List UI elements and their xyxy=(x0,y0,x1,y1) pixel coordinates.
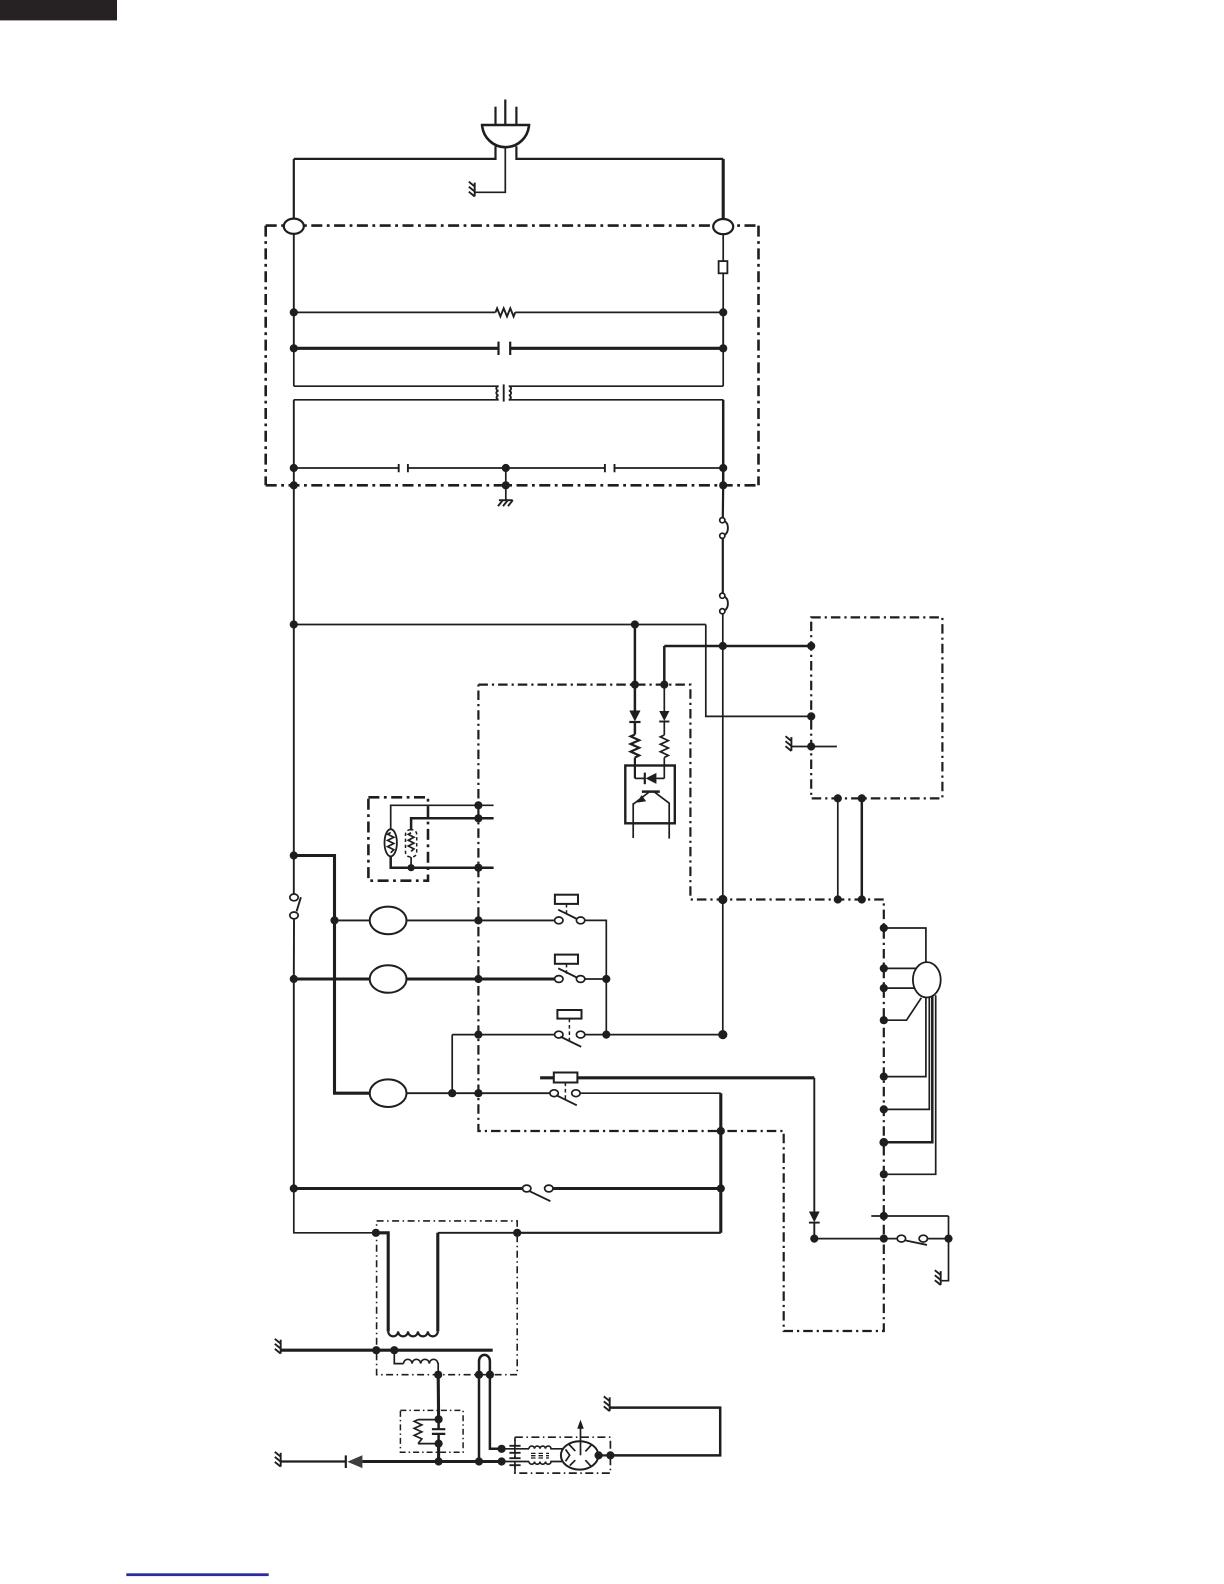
wire monitor switch out xyxy=(928,1238,949,1240)
node lower bus 1131 xyxy=(717,1127,725,1135)
node power unit out1 xyxy=(834,794,842,802)
monitor switch xyxy=(897,1235,927,1245)
wire left choke down xyxy=(293,400,295,468)
node R1 right xyxy=(719,308,727,316)
node control edge out2 xyxy=(858,895,866,903)
HV capacitor C4 xyxy=(432,1419,445,1443)
power unit box xyxy=(811,617,942,798)
node relay bus 979 xyxy=(602,975,610,983)
wire RY1 contact out xyxy=(585,920,607,979)
node anode box edge xyxy=(606,1451,614,1459)
node live rail left xyxy=(290,620,298,628)
fan motor FM xyxy=(370,907,407,935)
wire relay coil bus thick xyxy=(540,1076,814,1079)
node main left 1188 xyxy=(290,1184,298,1192)
relay RY2 link xyxy=(566,964,568,976)
HV secondary hairpin xyxy=(479,1355,502,1461)
relay RY1 coil xyxy=(555,895,578,904)
wire CN1 pin8 xyxy=(884,995,936,1174)
wire relay line to switch xyxy=(814,1238,897,1240)
wire heater line drop xyxy=(451,1035,453,1094)
relay RY1 contact xyxy=(555,910,585,924)
relay RY1 link xyxy=(566,904,568,917)
wire filament1 xyxy=(502,1448,529,1450)
node CN wire7 xyxy=(879,1138,888,1147)
wire lamp bottom lead xyxy=(391,856,494,867)
wire branch down to diode D2 xyxy=(663,685,665,711)
node CN wire4 xyxy=(880,1016,888,1024)
wire D2 to R3 xyxy=(663,722,665,736)
choke L1 rail top xyxy=(294,385,723,387)
node CN wire8 xyxy=(880,1170,888,1178)
node box edge right xyxy=(719,481,727,489)
node power unit in2 xyxy=(807,712,815,720)
wire D3 to node xyxy=(813,1223,815,1239)
wire HV primary bus xyxy=(517,1232,721,1234)
magnetron filter box xyxy=(515,1437,611,1473)
node PCB in 2 xyxy=(660,681,668,689)
node live rail branch xyxy=(631,620,639,628)
node lamp line 1 xyxy=(474,801,482,809)
wire motor rail to fan motor xyxy=(335,919,370,921)
capacitor C1 xyxy=(499,342,511,355)
wire CN1 pin7 xyxy=(884,997,933,1143)
node CN wire2 xyxy=(880,964,888,972)
relay RY2 coil xyxy=(555,955,578,964)
node power unit gnd xyxy=(807,742,815,750)
node PCB in 1 xyxy=(631,681,639,689)
wire door switch down xyxy=(293,919,295,979)
wire left rail 485 to 855 xyxy=(293,485,295,855)
terminal L xyxy=(284,219,304,234)
wire power unit to ground xyxy=(791,746,811,748)
HV transformer filament winding xyxy=(394,1350,438,1375)
wire left terminal down xyxy=(293,234,295,313)
node secondary box edge xyxy=(372,1346,380,1354)
wire branch down to diode D1 xyxy=(634,625,637,711)
ground monitor xyxy=(935,1270,941,1285)
node thermistor bottom xyxy=(408,864,415,871)
wire right choke down xyxy=(722,400,725,468)
capacitor C2 xyxy=(399,464,408,472)
wire relay bus down xyxy=(605,979,607,1035)
wire coil bus corner down xyxy=(813,1078,815,1212)
wire D4 to cathode node xyxy=(362,1460,438,1463)
node R1 left xyxy=(290,308,298,316)
wire left node to box edge xyxy=(293,468,295,485)
wire cathode line xyxy=(439,1460,502,1463)
wire fan motor to relay contact xyxy=(407,919,555,921)
node M3 line a xyxy=(448,1089,456,1097)
fuse F1 xyxy=(719,261,728,273)
wire power unit gnd stub xyxy=(811,746,837,748)
wire left rail 979 to 1188 xyxy=(293,979,295,1189)
noise filter unit box xyxy=(266,226,759,486)
choke L1 winding left xyxy=(496,386,498,400)
wire branch to motor rail xyxy=(294,856,370,1094)
magnetron antenna xyxy=(577,1420,584,1456)
node power unit out2 xyxy=(858,794,866,802)
diode D1 xyxy=(629,711,640,723)
node box edge left xyxy=(290,481,298,489)
wire anode to ground loop xyxy=(610,1408,721,1456)
capacitor C3 xyxy=(605,464,615,472)
door sensing switch xyxy=(290,894,301,919)
node TTM line ctrl edge xyxy=(474,975,482,983)
wire CN1 pin4 xyxy=(884,998,922,1020)
wire right drop to filter terminal xyxy=(722,159,725,219)
node C1 left xyxy=(290,344,298,352)
node CN wire1 xyxy=(880,924,888,932)
ground HV diode xyxy=(275,1452,281,1467)
HV transformer box xyxy=(377,1221,518,1375)
wire RY3 contact out xyxy=(585,1034,723,1036)
turntable motor TTM xyxy=(370,965,407,993)
node primary right xyxy=(513,1229,521,1237)
wire D1 to R2 xyxy=(634,722,637,735)
power plug P1 xyxy=(482,100,529,148)
wire monitor drop xyxy=(948,1216,950,1239)
ground plug earth xyxy=(469,182,475,197)
node relay bus 1034 xyxy=(602,1031,610,1039)
node heater line ctrl edge xyxy=(474,1031,482,1039)
choke core dashes xyxy=(531,1453,549,1458)
wire CN1 pin1 xyxy=(884,928,926,962)
node C2 mid xyxy=(502,464,510,472)
node left rail 979 xyxy=(290,975,298,983)
node motor rail 920 xyxy=(330,916,338,924)
wire RY4 out down xyxy=(719,1093,722,1233)
wire CN1 pin3 xyxy=(884,987,915,989)
footer blue rule xyxy=(126,1573,268,1576)
wire plug earth lead xyxy=(475,148,506,192)
page corner black bar xyxy=(0,0,117,20)
node CN wire5 xyxy=(880,1073,888,1081)
relay RY3 coil xyxy=(557,1010,581,1019)
wire CN1 pin2 xyxy=(884,967,917,969)
monitor resistor line xyxy=(871,1215,948,1217)
node monitor line dashdot xyxy=(880,1212,888,1220)
wire monitor to ground xyxy=(941,1239,949,1281)
wire TTM to relay contact xyxy=(407,977,555,980)
wire anode stub xyxy=(599,1454,611,1456)
magnetron V1 xyxy=(561,1441,598,1469)
ground filter center xyxy=(498,500,513,506)
wire main left to transformer xyxy=(294,1189,376,1233)
wire thick feed corner down xyxy=(663,646,666,685)
wire secondary common xyxy=(281,1349,493,1352)
node control edge out1 xyxy=(834,895,842,903)
choke L1 winding right xyxy=(509,386,511,400)
resistor R1 xyxy=(496,308,516,316)
wire turntable motor feed xyxy=(294,977,370,980)
ground power unit xyxy=(786,736,792,751)
node magnetron anode xyxy=(595,1451,603,1459)
connector CN1 xyxy=(913,962,941,997)
node M3 line ctrl edge xyxy=(474,1089,482,1097)
wire plug left lead xyxy=(294,146,496,159)
node filament top xyxy=(498,1445,506,1453)
relay RY4 contact xyxy=(550,1090,580,1106)
node fan line ctrl edge xyxy=(474,916,482,924)
wire CN1 pin6 xyxy=(884,997,930,1109)
node D3 out xyxy=(810,1235,818,1243)
bleeder resistor R4 xyxy=(414,1420,438,1444)
control unit outline xyxy=(478,685,883,1331)
choke L1 core xyxy=(503,384,505,401)
oven lamp xyxy=(385,829,397,856)
node transformer bottom c xyxy=(486,1371,494,1379)
resistor R3 xyxy=(660,735,668,758)
wire live rail horizontal xyxy=(294,624,706,626)
feedthrough capacitor bottom xyxy=(509,1453,520,1473)
relay RY2 contact xyxy=(555,968,585,982)
wire mid node to box edge xyxy=(505,468,507,485)
oven lamp box xyxy=(368,797,428,880)
wire cutout1 to cutout2 xyxy=(722,539,724,593)
wire M3 out xyxy=(407,1092,551,1094)
wire RY2 contact out xyxy=(585,978,607,980)
node transformer bottom a xyxy=(434,1371,442,1379)
capacitor C2 line xyxy=(294,467,723,469)
wire lamp top lead xyxy=(391,805,494,829)
node transformer bottom b xyxy=(475,1371,483,1379)
wire right node to box edge xyxy=(722,468,725,485)
HV capacitor box xyxy=(400,1410,463,1452)
wire RY4 contact out xyxy=(580,1092,721,1094)
relay RY3 contact xyxy=(555,1031,585,1047)
node lamp line 3 xyxy=(474,864,482,872)
wire power unit out2 down xyxy=(861,798,864,899)
wire mid node to ground xyxy=(505,485,507,500)
node cathode a xyxy=(435,1457,443,1465)
wire thick feed to PCB xyxy=(664,645,811,648)
node lamp line 2 xyxy=(474,814,482,822)
choke L3 xyxy=(529,1462,562,1465)
wire breaker line to switch3 node xyxy=(722,646,724,1035)
wire right node down xyxy=(722,312,724,348)
node CN wire3 xyxy=(880,984,888,992)
wire HV cap to cathode line xyxy=(437,1444,440,1462)
wire left drop to filter terminal xyxy=(293,159,295,219)
diode D3 xyxy=(809,1212,820,1223)
wire heater line xyxy=(452,1034,554,1036)
wire thermistor top lead xyxy=(411,818,494,830)
node cathode b xyxy=(475,1457,483,1465)
node primary left xyxy=(372,1229,380,1237)
thermistor lamp box xyxy=(406,830,417,857)
node lower bus 1188 xyxy=(717,1184,725,1192)
wire power unit out1 down xyxy=(837,798,839,899)
ground magnetron anode xyxy=(604,1396,610,1411)
resistor R1 line xyxy=(294,311,723,313)
node power unit in1 xyxy=(807,642,815,650)
wire plug right lead xyxy=(516,146,723,159)
node filament tap xyxy=(390,1346,398,1354)
capacitor C1 line left xyxy=(294,347,499,350)
diode D2 xyxy=(659,711,669,722)
choke L1 rail bottom xyxy=(294,399,723,401)
door interlock switch xyxy=(523,1185,554,1201)
node C1 right xyxy=(719,344,727,352)
resistor R2 xyxy=(631,735,640,758)
choke L2 xyxy=(529,1446,563,1449)
magnetron fan motor M3 xyxy=(370,1079,407,1107)
ground transformer secondary xyxy=(275,1339,281,1354)
relay RY4 coil xyxy=(554,1073,578,1083)
wire door interlock feed xyxy=(294,1187,523,1190)
wire right to choke xyxy=(722,348,724,386)
wire thermistor bottom lead xyxy=(410,857,412,868)
diode D4 xyxy=(346,1455,363,1468)
node relay line dashdot xyxy=(880,1235,888,1243)
node thick feed x722 xyxy=(719,642,727,650)
node cathode c xyxy=(498,1457,506,1465)
wire filter output to cutout xyxy=(722,485,725,518)
wire ground to diode D4 xyxy=(281,1460,346,1462)
capacitor C1 line right xyxy=(510,347,723,350)
wire R3 to optocoupler xyxy=(663,758,665,779)
wire left to choke xyxy=(293,348,295,386)
wire left node down xyxy=(293,312,295,348)
node RY3 out junction xyxy=(718,1030,727,1039)
wire fuse to node xyxy=(722,273,724,312)
node HV cap bottom xyxy=(435,1440,443,1448)
wire cutout2 down xyxy=(722,614,724,646)
node monitor junction xyxy=(944,1235,952,1243)
wire interlock out xyxy=(553,1187,721,1190)
relay RY3 link xyxy=(568,1019,570,1044)
thermal cutout TC2 xyxy=(720,593,728,614)
wire R2 to optocoupler xyxy=(634,758,636,779)
node left rail 855 xyxy=(290,851,298,859)
node control edge x722 xyxy=(718,895,727,904)
wire filament2 xyxy=(502,1461,529,1463)
optocoupler phototransistor xyxy=(633,792,669,839)
HV transformer primary xyxy=(376,1233,517,1337)
terminal N xyxy=(713,219,733,234)
wire terminal N to fuse xyxy=(722,234,724,261)
optocoupler U1 xyxy=(625,766,675,824)
node CN wire6 xyxy=(880,1105,888,1113)
wire live rail corner down xyxy=(706,625,811,717)
wire HV lead down xyxy=(437,1375,440,1420)
magnetron cathode spokes xyxy=(566,1444,592,1467)
feedthrough capacitor top xyxy=(509,1437,520,1453)
thermal cutout TC1 xyxy=(720,518,728,539)
node box edge mid xyxy=(502,481,510,489)
optocoupler LED xyxy=(635,773,664,785)
node C2 left xyxy=(290,464,298,472)
relay RY4 link xyxy=(564,1083,566,1102)
node HV cap top xyxy=(435,1415,443,1423)
wire left rail to door switch xyxy=(293,856,295,895)
wire CN1 pin5 xyxy=(884,997,926,1076)
node C2 right xyxy=(719,464,727,472)
